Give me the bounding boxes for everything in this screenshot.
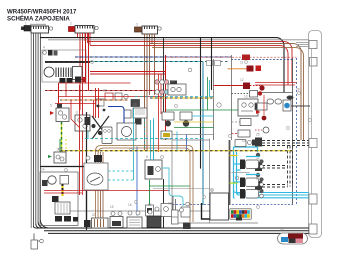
component: right col row1 orange xyxy=(228,66,262,72)
component: voltage regulator xyxy=(145,160,162,179)
svg-text:13: 13 xyxy=(244,95,248,99)
wire: bottom main bus xyxy=(34,226,315,228)
box: CDI dashed border left xyxy=(165,55,167,140)
wire: right long vertical xyxy=(292,58,294,205)
wire: blue L mid xyxy=(108,107,124,124)
component: bottom comp3 dark xyxy=(147,207,161,228)
wire: teal dashed vertical x144.5 xyxy=(144,119,146,151)
svg-text:12: 12 xyxy=(240,78,244,82)
wire: black dashed bundle row1 xyxy=(262,141,309,146)
wire: brown pair lower-mid xyxy=(96,146,194,223)
wire: teal vertical x133.5 xyxy=(133,108,135,180)
component: diode box xyxy=(161,204,172,217)
component: throttle body box xyxy=(168,81,186,96)
wire: red vertical x80 continue xyxy=(79,85,81,195)
svg-text:23: 23 xyxy=(133,103,137,107)
svg-text:17: 17 xyxy=(148,203,152,207)
svg-text:6: 6 xyxy=(76,111,78,115)
wire: blue dashed bus xyxy=(75,56,232,58)
wire: dark blue vertical mid xyxy=(202,62,204,206)
wire: green horizontal lower xyxy=(150,185,190,187)
svg-text:24: 24 xyxy=(170,80,174,84)
wire: verticals into left connector xyxy=(173,196,176,210)
component: row2 sensor xyxy=(255,153,262,171)
component: sensor box pair1 xyxy=(162,112,174,127)
box: CDI dashed border blue line xyxy=(231,59,293,61)
component: circle right lower xyxy=(255,127,269,133)
svg-text:2: 2 xyxy=(70,22,72,26)
wire: yellow-black thick drop xyxy=(62,184,64,196)
svg-text:10: 10 xyxy=(242,139,246,143)
wire: teal drop from relay xyxy=(87,131,89,139)
component: dark blob mid xyxy=(135,119,142,125)
component: row1 sensors left xyxy=(255,138,317,148)
svg-text:1: 1 xyxy=(25,22,27,26)
wire: teal dashed y180 short xyxy=(108,171,133,180)
connector: teal cluster box4 xyxy=(240,189,264,199)
component: blue solenoid xyxy=(283,96,294,112)
wire: teal dashed y96.5 mid xyxy=(135,96,214,98)
wire: brown bus lower xyxy=(152,48,304,140)
wire: cyan triple to frame xyxy=(234,190,310,198)
wire: black dashed vertical bundle xyxy=(288,146,293,187)
svg-text:3: 3 xyxy=(136,23,138,27)
wire: side stand lead xyxy=(33,234,35,241)
component: FI diagnostic box xyxy=(238,99,258,116)
wire: dark link right xyxy=(291,105,310,107)
component: black blob headlight xyxy=(52,196,59,202)
component: right col row3 dashed xyxy=(232,91,263,98)
connector: left tall connector bottom xyxy=(172,208,184,224)
wire: red pair right area xyxy=(255,83,297,86)
wire: black corner at x163 xyxy=(163,38,165,112)
wire: brown bus upper xyxy=(150,44,302,140)
connector: CDI coupler plug (brown) xyxy=(135,27,143,32)
wire: teal into regulator xyxy=(151,120,154,160)
connector: bottom bus right stub xyxy=(309,224,317,234)
wire: red horizontals in headlight box xyxy=(44,191,170,194)
component: small box mid1 xyxy=(124,110,131,118)
wire: bottom bus line4 xyxy=(40,220,314,233)
svg-text:22: 22 xyxy=(103,89,107,93)
wire: green and teal verticals near box xyxy=(207,77,209,110)
component: red arrow and blob right xyxy=(256,95,266,120)
svg-text:14: 14 xyxy=(41,168,45,172)
connector: rectifier coupler plug (red) xyxy=(69,27,76,32)
svg-text:28: 28 xyxy=(296,88,300,92)
wire: red verticals left-mid xyxy=(59,33,89,110)
component: generator top small parts xyxy=(43,50,58,56)
component: bottom comp2 xyxy=(127,211,142,228)
connector: teal cluster top box xyxy=(235,140,260,147)
wire: black vertical x211.5 xyxy=(211,38,213,90)
wire: teal out regulator L xyxy=(162,168,183,206)
frame: right harness rounded rect xyxy=(309,31,322,238)
wire: gray bus xyxy=(48,39,309,41)
box: tall mid box right edge xyxy=(231,55,233,140)
wire: black frame vertical xyxy=(86,167,88,229)
wire: green diagonal and vertical xyxy=(149,180,151,205)
wire: red vertical x158.5 xyxy=(159,74,162,152)
component: small box mid2 xyxy=(133,108,147,118)
wire: red dashed y90.5 xyxy=(45,90,163,92)
connector: headlight bottom plugs xyxy=(55,216,78,222)
wire: green horizontal y110 xyxy=(166,109,243,111)
box: CDI dashed border top xyxy=(166,56,297,58)
wire: bottom bus line3 xyxy=(38,222,314,231)
component: coil top marks xyxy=(57,104,62,108)
svg-text:27: 27 xyxy=(256,177,260,181)
wire: teal dashed y138.5 xyxy=(85,138,203,140)
connector: teal cluster box3 xyxy=(240,177,264,187)
wire: colored links to mid box xyxy=(192,115,214,117)
wire: magneto harness bundle down-left xyxy=(34,33,41,226)
component: yellow sensor box xyxy=(161,131,172,139)
svg-text:20: 20 xyxy=(92,213,96,217)
wire: yellow dashed inside teal cluster xyxy=(230,156,250,184)
component: left cap box xyxy=(255,103,267,110)
component: headlight bulb xyxy=(42,176,56,186)
component: small dark box bottom xyxy=(183,223,191,230)
box: CDI dashed border bottom xyxy=(166,204,293,206)
svg-text:25: 25 xyxy=(256,133,260,137)
wire: red horizontal y96.5 xyxy=(59,83,165,97)
wire: red vertical x82.5 continue xyxy=(82,140,84,195)
component: right col row6 red dashed xyxy=(232,130,251,137)
component: starter motor box with circle xyxy=(117,123,136,140)
wire: stub lines to right frame top xyxy=(296,43,309,47)
component: bottom comp1 xyxy=(110,212,123,228)
wire: extra bundle line xyxy=(30,33,32,228)
wire: black vertical mid xyxy=(200,38,202,169)
wire: red bus upper xyxy=(88,42,293,83)
component: row3 sensor xyxy=(255,173,262,190)
connector: generator coupler dark xyxy=(60,77,86,84)
box: headlight assembly border xyxy=(40,172,78,226)
component: connector circles cluster xyxy=(155,80,169,94)
target mark in mid box xyxy=(188,68,239,180)
wire: red bus lower xyxy=(90,46,288,85)
svg-text:18: 18 xyxy=(280,229,284,233)
component: right small ovals xyxy=(267,99,282,104)
svg-text:WR450F/WR450FH 2017: WR450F/WR450FH 2017 xyxy=(7,9,77,16)
wire: dark vertical x163.5 to bus xyxy=(163,179,165,228)
svg-text:19: 19 xyxy=(168,202,172,206)
component: right col row2 red xyxy=(214,83,263,90)
box: meter panel bottom edge xyxy=(153,188,210,190)
component: kill switch boxes row xyxy=(96,93,128,106)
component: ignition switch box xyxy=(48,152,66,163)
wire: cyan corner drop xyxy=(176,132,178,151)
wire: teal dashed bus xyxy=(45,61,230,63)
component: headlight connector xyxy=(55,202,70,214)
component: speedometer assembly xyxy=(84,155,108,190)
connector: rectifier coupler body xyxy=(75,26,98,34)
box: generator assembly border xyxy=(42,50,86,82)
svg-text:26: 26 xyxy=(256,158,260,162)
wire: yellow dashed drop xyxy=(65,139,67,151)
wire: teal snake cluster xyxy=(234,147,261,198)
connector: side stand switch xyxy=(31,239,43,249)
svg-text:5: 5 xyxy=(50,104,52,108)
component: red blob right xyxy=(259,85,264,90)
wire: blue vertical x137 xyxy=(136,147,138,216)
box: lower-mid box xyxy=(172,139,258,224)
connector: small pair at box top xyxy=(207,61,221,66)
svg-text:16: 16 xyxy=(128,203,132,207)
connector: right frame stub y57 xyxy=(310,58,318,67)
connector: CDI coupler body xyxy=(142,26,161,34)
connector: AC magneto coupler plug xyxy=(21,24,46,31)
box: tall mid box left edge xyxy=(213,59,215,140)
wire: black dashed row2 xyxy=(262,166,288,169)
wire: main black bus xyxy=(40,38,284,93)
wire: red verticals mid cluster xyxy=(96,88,99,118)
component: headlight box2 xyxy=(60,176,69,185)
component: condenser tall box xyxy=(102,127,112,144)
component: ECU box xyxy=(210,193,229,220)
component: AC generator coil assembly xyxy=(44,67,82,80)
wire: red horizontal y83 xyxy=(59,82,131,84)
component: sensor under teal xyxy=(181,202,190,217)
wire: green drop to switch xyxy=(59,139,61,152)
markers: circled item numbers xyxy=(59,61,312,209)
wire: right vertical gray pair xyxy=(311,49,313,225)
wire: crossing black wires xyxy=(87,112,110,230)
wire: brown verticals to bottom connector xyxy=(101,152,104,218)
svg-text:11: 11 xyxy=(240,61,244,65)
component: middle cluster dark box xyxy=(131,100,140,107)
component: sensor box pair2 xyxy=(180,112,192,127)
markers: component number labels xyxy=(25,22,300,233)
wire: red harness from rectifier coupler xyxy=(78,33,91,140)
wire: cyan vertical x153.5 xyxy=(153,118,155,162)
svg-text:15: 15 xyxy=(110,205,114,209)
wire: brown harness from CDI coupler xyxy=(145,34,155,150)
connector: teal cluster box2 xyxy=(240,159,264,169)
svg-text:SCHÉMA ZAPOJENIA: SCHÉMA ZAPOJENIA xyxy=(7,15,70,23)
component: small dots cluster xyxy=(85,105,106,135)
wire: thick black bar under teal bus xyxy=(45,61,90,63)
svg-text:7: 7 xyxy=(85,159,87,163)
wire: orange dashed y99.5 xyxy=(60,98,214,100)
wire: red dashed y71.5 xyxy=(90,72,166,75)
wire: black frame top xyxy=(40,166,87,168)
component: ignition coil primary box xyxy=(50,108,69,122)
wire: bottom thin bus xyxy=(60,210,214,212)
component: right col row5 xyxy=(232,119,252,126)
wire: yellow dashed y147.5 long xyxy=(60,150,293,152)
wire: spark plug lead yellow-green dashed xyxy=(61,122,63,152)
svg-text:4: 4 xyxy=(43,46,45,50)
wire: bottom bus line2 xyxy=(36,224,315,228)
component: red box on CDI border xyxy=(242,55,250,61)
wire: ECU feed wires xyxy=(202,203,211,219)
svg-text:8: 8 xyxy=(146,155,148,159)
component: ECU coupler colored strip xyxy=(230,209,252,221)
connector: cyan stub box xyxy=(309,194,317,204)
wire: black dashed row3 xyxy=(262,185,288,188)
component: bottom-right oval connector xyxy=(278,233,308,244)
wire: red web extras xyxy=(55,100,95,128)
connector: AC magneto coupler body xyxy=(31,26,53,33)
connector: bottom dark plug xyxy=(84,220,91,227)
connector: bottom brown coupler xyxy=(92,218,109,228)
wire: blue dashed vertical right xyxy=(296,58,298,205)
box: right area box border xyxy=(255,92,293,94)
connector: right frame top stub xyxy=(309,41,317,49)
wire: blue corner drop xyxy=(186,135,188,151)
component: relay box left-mid xyxy=(75,115,90,131)
component: clutch switch box xyxy=(146,205,154,216)
